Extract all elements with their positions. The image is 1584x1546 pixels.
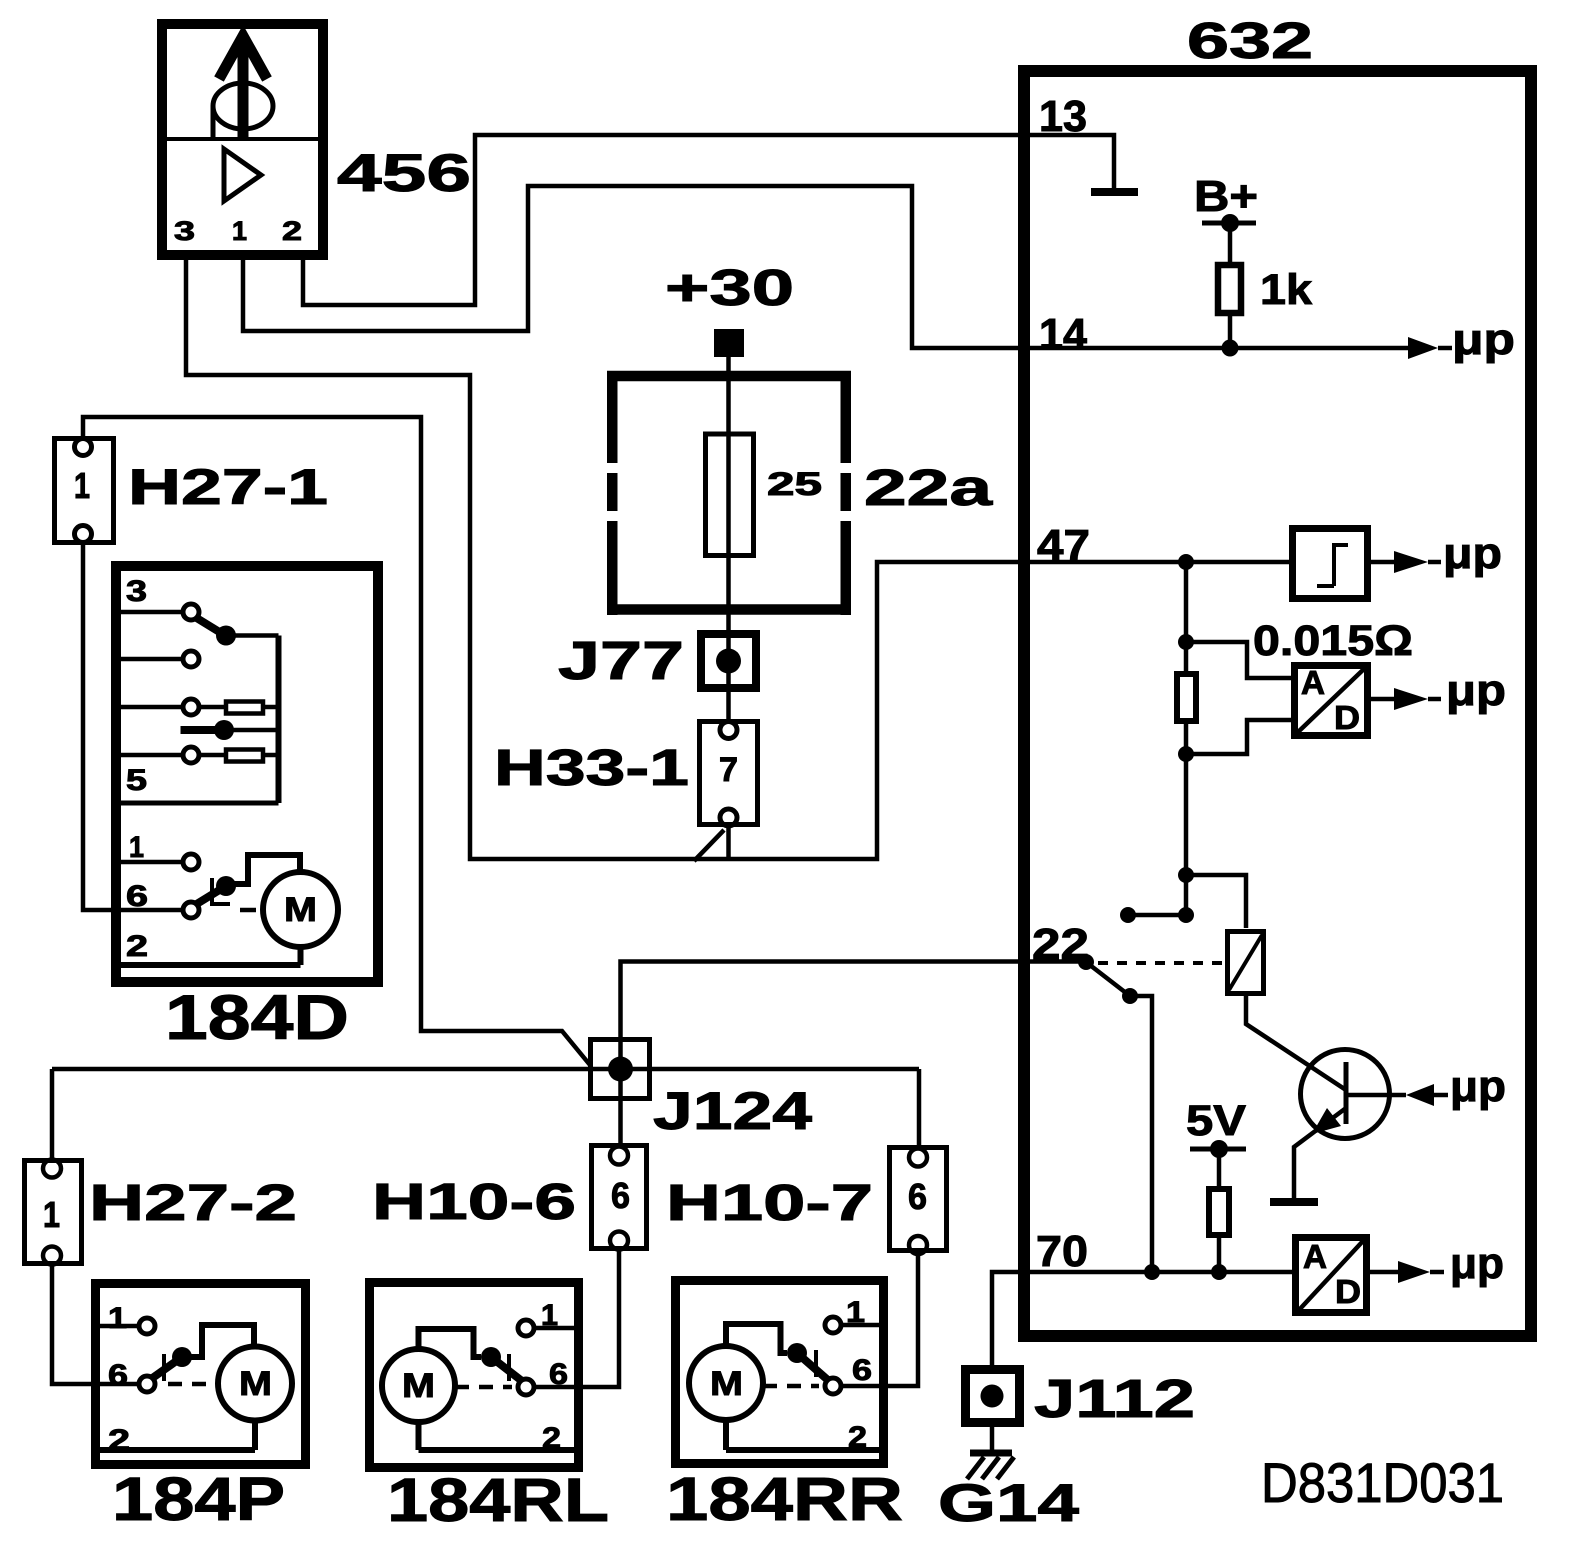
svg-text:D: D <box>1334 699 1360 736</box>
svg-text:1: 1 <box>43 1194 60 1235</box>
svg-text:A: A <box>1303 1238 1327 1275</box>
svg-text:25: 25 <box>767 466 822 502</box>
svg-text:2: 2 <box>848 1421 867 1454</box>
svg-text:3: 3 <box>174 216 195 246</box>
svg-text:μp: μp <box>1452 315 1515 364</box>
svg-text:2: 2 <box>108 1424 130 1457</box>
svg-text:H27-1: H27-1 <box>128 459 328 515</box>
svg-text:6: 6 <box>549 1358 568 1391</box>
svg-text:1: 1 <box>108 1302 127 1335</box>
svg-text:μp: μp <box>1446 666 1506 715</box>
svg-text:H10-6: H10-6 <box>372 1173 576 1230</box>
svg-text:D: D <box>1335 1273 1361 1310</box>
svg-text:M: M <box>239 1365 272 1403</box>
svg-text:1: 1 <box>232 216 247 246</box>
svg-text:22a: 22a <box>864 459 993 516</box>
svg-text:0.015Ω: 0.015Ω <box>1253 617 1413 665</box>
svg-text:H10-7: H10-7 <box>666 1174 873 1231</box>
svg-text:+30: +30 <box>665 259 794 316</box>
svg-text:184P: 184P <box>112 1465 285 1533</box>
svg-text:632: 632 <box>1187 12 1313 69</box>
svg-text:D831D031: D831D031 <box>1261 1451 1504 1514</box>
svg-text:3: 3 <box>126 575 147 608</box>
svg-text:70: 70 <box>1036 1227 1088 1276</box>
svg-text:H33-1: H33-1 <box>494 739 689 796</box>
svg-text:47: 47 <box>1037 521 1090 570</box>
svg-text:H27-2: H27-2 <box>89 1174 297 1231</box>
svg-text:J112: J112 <box>1034 1369 1195 1429</box>
svg-text:B+: B+ <box>1194 172 1258 221</box>
svg-text:2: 2 <box>282 216 302 246</box>
svg-text:M: M <box>402 1367 435 1405</box>
svg-text:M: M <box>284 891 317 929</box>
svg-text:14: 14 <box>1039 310 1088 359</box>
svg-text:456: 456 <box>337 144 471 203</box>
svg-text:5: 5 <box>126 764 147 797</box>
svg-text:6: 6 <box>908 1176 927 1217</box>
svg-text:13: 13 <box>1039 92 1087 141</box>
svg-text:6: 6 <box>126 880 148 913</box>
svg-text:6: 6 <box>108 1359 128 1392</box>
svg-text:μp: μp <box>1443 529 1502 578</box>
svg-text:J77: J77 <box>558 631 684 691</box>
svg-text:7: 7 <box>719 751 738 789</box>
svg-text:1k: 1k <box>1260 266 1312 314</box>
svg-text:184D: 184D <box>165 983 349 1053</box>
svg-text:A: A <box>1301 664 1325 701</box>
svg-text:1: 1 <box>74 465 90 506</box>
svg-text:1: 1 <box>129 831 144 864</box>
svg-text:M: M <box>710 1365 743 1403</box>
svg-text:6: 6 <box>852 1354 872 1387</box>
svg-text:2: 2 <box>126 930 148 963</box>
svg-text:184RR: 184RR <box>666 1465 903 1533</box>
svg-text:J124: J124 <box>653 1082 813 1141</box>
svg-text:184RL: 184RL <box>387 1466 609 1534</box>
svg-text:5V: 5V <box>1186 1097 1246 1145</box>
svg-text:2: 2 <box>542 1422 561 1455</box>
svg-text:μp: μp <box>1450 1239 1504 1288</box>
svg-text:G14: G14 <box>938 1474 1080 1533</box>
svg-text:6: 6 <box>611 1175 630 1216</box>
svg-text:μp: μp <box>1450 1062 1506 1111</box>
